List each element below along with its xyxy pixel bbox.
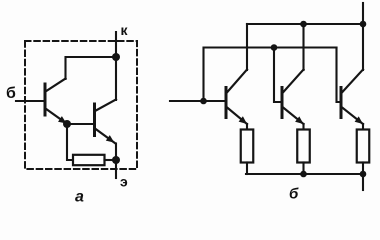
wire R3 to bottom rail: [302, 163, 304, 175]
wire R4 to bottom rail: [362, 163, 364, 175]
node: VT1 emitter / VT2 base junction: [63, 120, 71, 128]
wire VT4 emitter to resistor R3: [302, 124, 304, 130]
transistor VT5: [341, 70, 363, 125]
node: bottom rail junction R3: [300, 171, 307, 178]
svg-text:э: э: [120, 174, 128, 190]
wire VT5 collector to collector rail: [362, 24, 364, 70]
resistor R4: [357, 130, 370, 163]
wire VT2 base node to resistor: [67, 124, 73, 160]
wire VT2 emitter to э terminal: [115, 144, 117, 179]
resistor R3: [297, 130, 310, 163]
wire base input б: [16, 100, 44, 102]
wire input base (б circuit): [170, 100, 225, 102]
transistor VT3: [226, 70, 247, 125]
node: collector junction: [112, 53, 120, 61]
resistor R2: [241, 130, 254, 163]
svg-text:б: б: [6, 85, 16, 102]
wire resistor to emitter node: [105, 159, 117, 161]
wire R2 to bottom rail: [246, 163, 248, 175]
wire top terminal: [362, 3, 364, 24]
transistor VT4: [282, 70, 304, 125]
svg-text:а: а: [75, 189, 84, 206]
transistor VT2: [95, 100, 117, 144]
node: collector rail junction VT4: [300, 21, 307, 28]
wire base rail to VT4 base: [274, 48, 281, 103]
wire base rail to VT5 base: [337, 48, 341, 103]
wire VT3 emitter to resistor R2: [246, 124, 248, 130]
resistor R1 (base-emitter): [73, 155, 105, 165]
wire VT3 collector to collector rail: [246, 24, 248, 70]
wire input up to base rail: [204, 48, 337, 102]
wire VT1 emitter to VT2 base: [67, 123, 94, 125]
emitter bottom rail: [246, 173, 364, 175]
wire VT1 collector to к line: [66, 57, 117, 79]
wire bottom terminal: [362, 174, 364, 190]
svg-text:к: к: [121, 22, 129, 38]
node: input base junction: [200, 98, 207, 105]
wire к terminal: [115, 32, 117, 100]
node: collector rail junction VT5: [360, 21, 367, 28]
node: bottom rail junction R4: [360, 171, 367, 178]
wire VT5 emitter to resistor R4: [362, 124, 364, 130]
transistor VT1: [45, 79, 67, 124]
svg-text:б: б: [289, 186, 299, 203]
collector rail: [247, 23, 363, 25]
node: base rail junction: [271, 44, 278, 51]
dashed enclosure of composite transistor (а): [25, 41, 137, 169]
node: emitter junction: [112, 156, 120, 164]
wire VT4 collector to collector rail: [302, 24, 304, 70]
